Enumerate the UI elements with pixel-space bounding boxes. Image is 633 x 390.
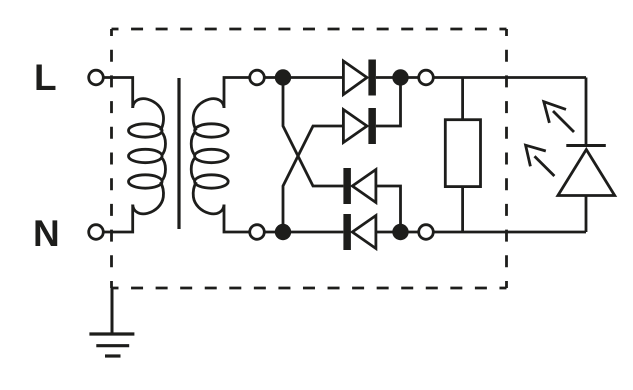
- svg-text:L: L: [34, 57, 57, 98]
- svg-text:N: N: [33, 213, 60, 254]
